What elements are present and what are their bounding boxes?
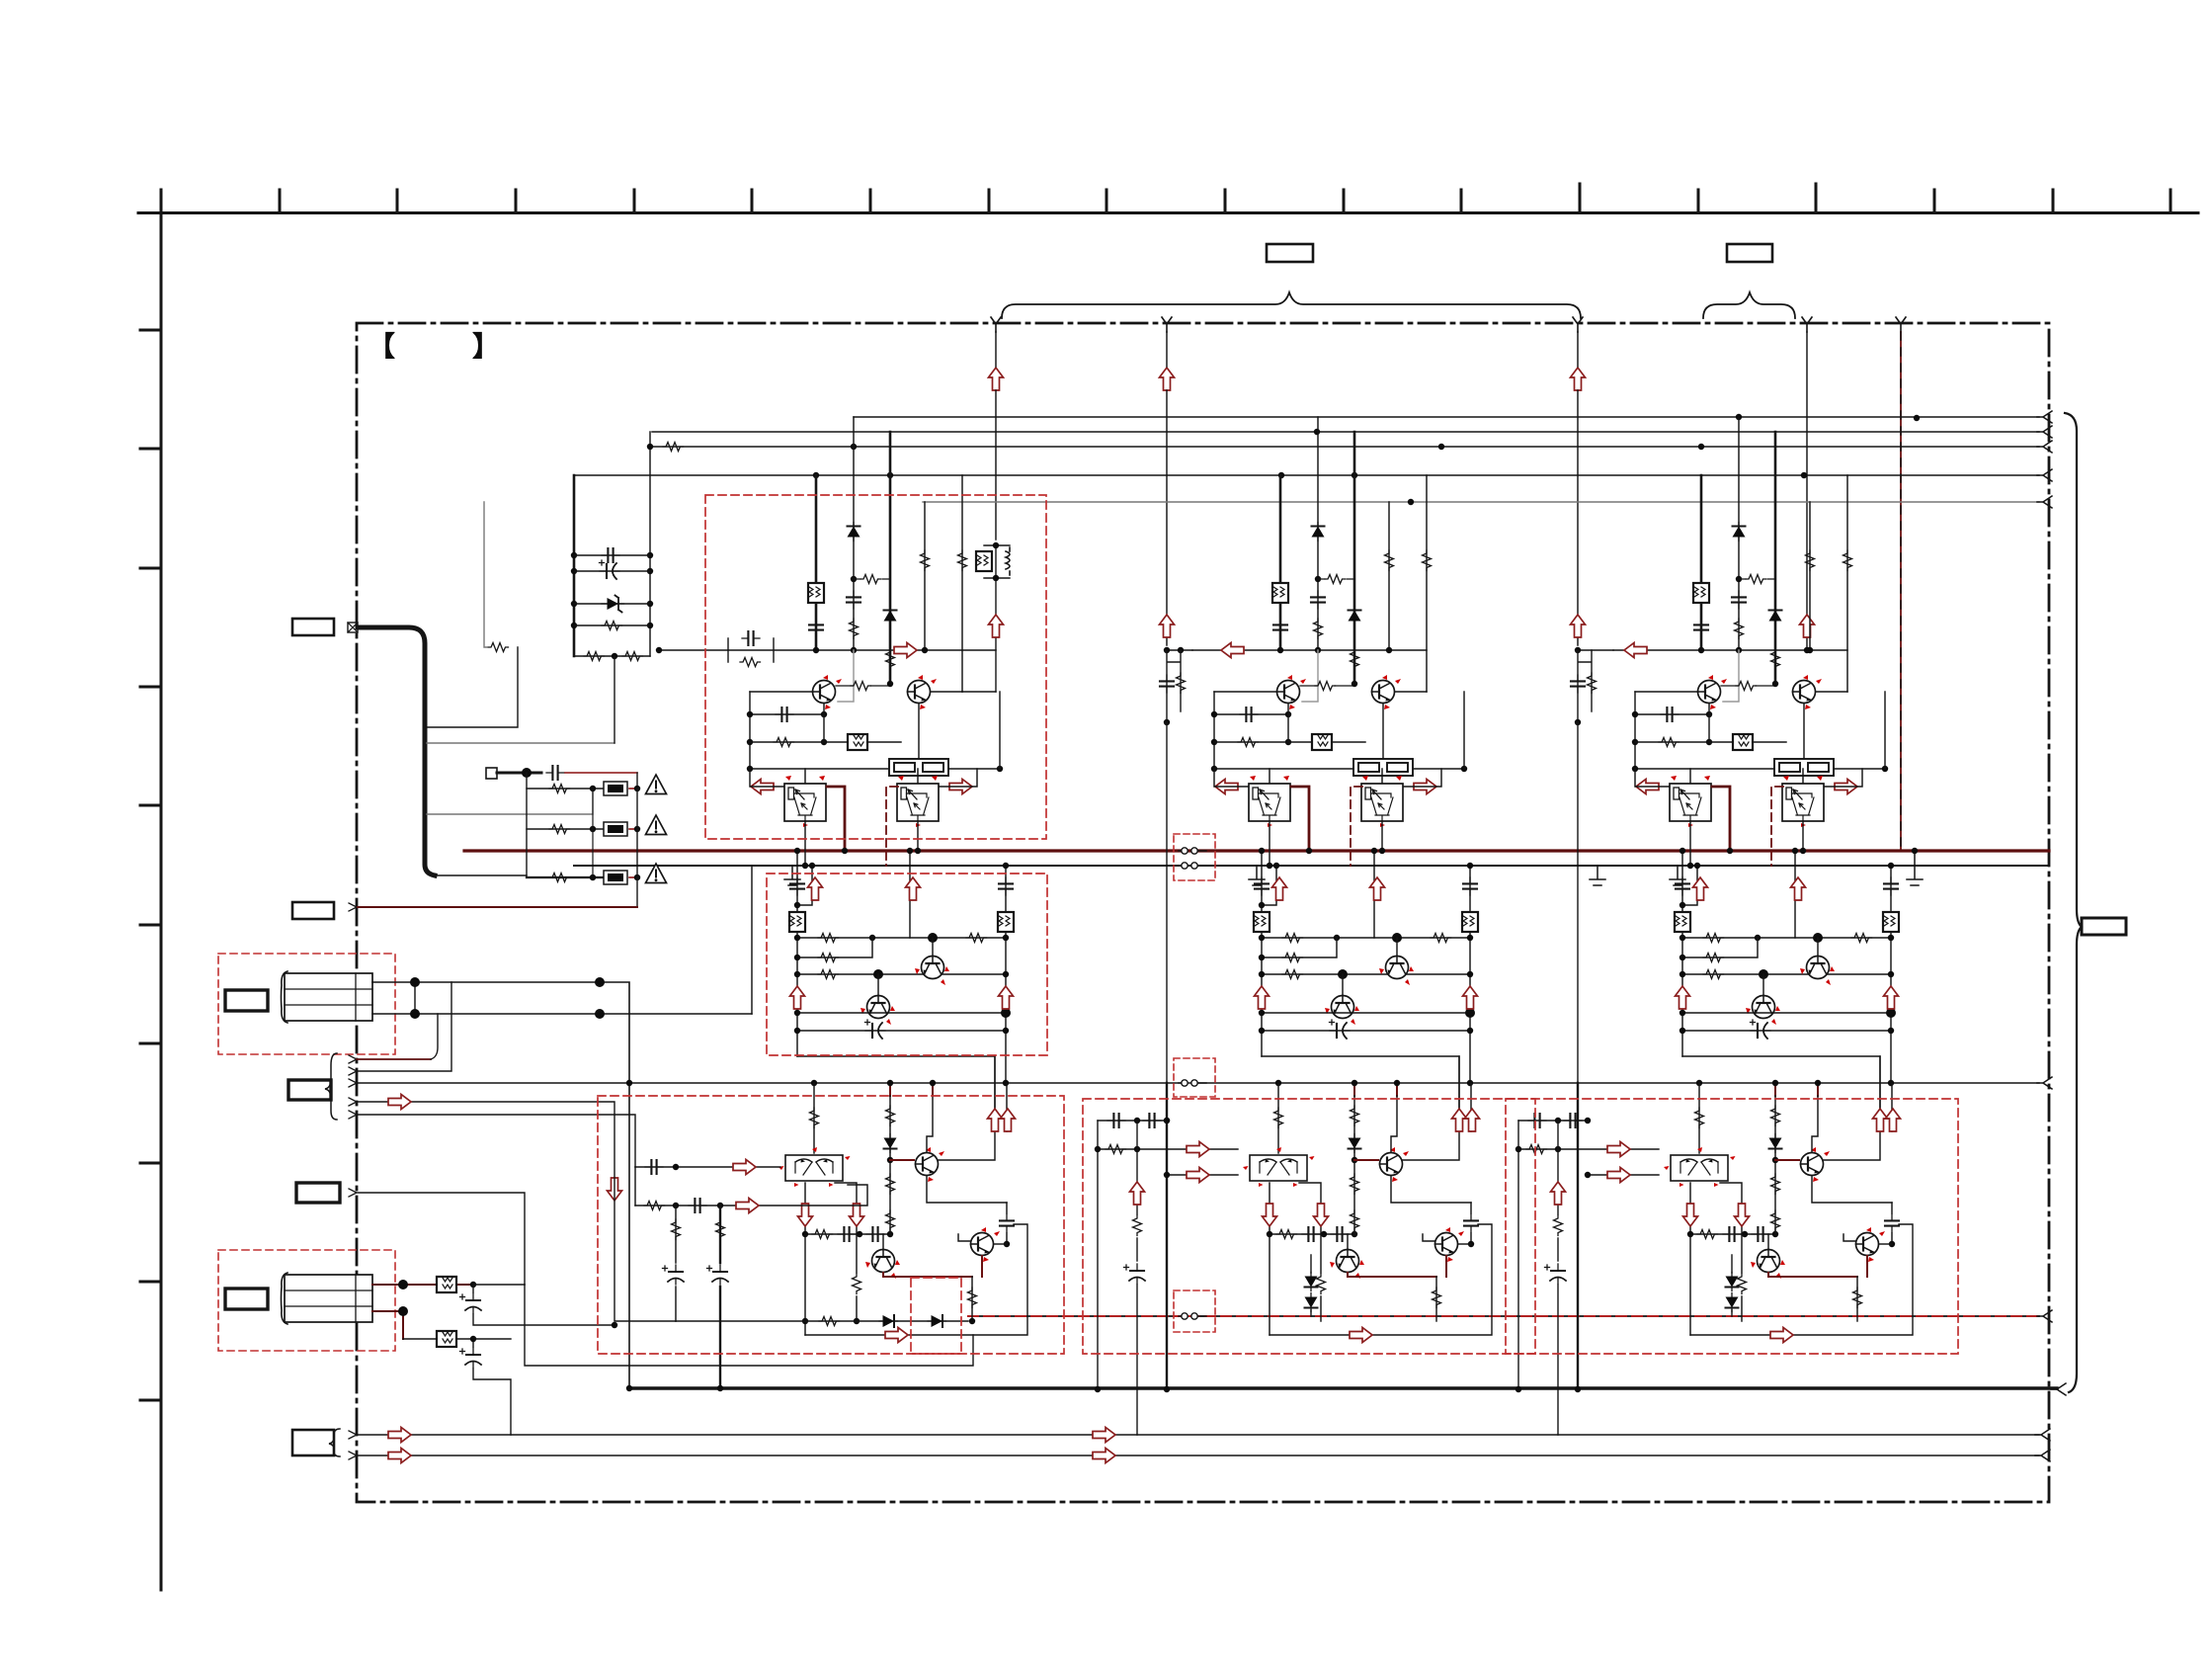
resistor upper — [602, 622, 622, 630]
wire motor2 pin2 dark red — [372, 1311, 403, 1339]
svg-text:】: 】 — [472, 331, 500, 362]
junction ch3 pair bottom — [1575, 719, 1581, 725]
wire conn line4 — [357, 1102, 676, 1321]
rail ch3 input left — [1517, 1121, 1519, 1389]
wire motor2 pin1 dark red — [372, 1284, 473, 1286]
bus line 4 — [574, 474, 2039, 476]
wire branch b2 — [427, 742, 614, 744]
wire ch3 cap row — [1518, 1120, 1588, 1122]
label box M2 — [225, 1289, 268, 1309]
wire warn right rail — [636, 789, 638, 907]
bus thick bottom — [629, 1386, 2057, 1389]
arrow up right feed — [1800, 615, 1815, 637]
junction motor2 pin1 — [398, 1280, 408, 1290]
fork ends bottom lines — [2035, 1429, 2050, 1441]
arrow up ch1 feed — [989, 368, 1004, 390]
resistor branch b1 — [488, 643, 509, 652]
wire ch3 col mid — [1557, 1121, 1559, 1435]
junction ch3 row feed — [1804, 647, 1810, 653]
resistor input2 — [644, 1202, 665, 1210]
motor M1 — [282, 971, 373, 1023]
wire row extension ch1 — [659, 649, 728, 651]
polarized capacitor ch3 col — [1545, 1264, 1567, 1284]
wire motor1 pin1 — [372, 982, 629, 1388]
wire branch b3 — [427, 789, 593, 814]
capacitor input pair ch1 — [728, 638, 774, 662]
capacitor upper — [602, 548, 619, 562]
junction input1 — [673, 1164, 679, 1170]
red dashed box motor1 — [218, 954, 395, 1054]
warning row 3 — [527, 876, 605, 878]
wire ch2 feed lower — [1166, 722, 1168, 1083]
wire conn line1 — [357, 1058, 431, 1060]
polarized capacitor col729 — [707, 1265, 729, 1285]
wire ch3 row3 — [1588, 1174, 1659, 1176]
wire motor2 row2 — [403, 1338, 511, 1340]
node Y4 — [1802, 317, 1812, 332]
wire pcap row — [574, 570, 650, 572]
warning row 2 — [527, 828, 605, 830]
bus red dashed fork end — [2037, 1310, 2052, 1322]
brace top right — [1703, 292, 1795, 318]
wire ch3 res row — [1518, 1148, 1659, 1150]
diode row d1 ch1 — [879, 1315, 898, 1327]
diode stack ch2 — [1310, 1255, 1312, 1316]
label box top center — [1267, 244, 1313, 262]
wire col729 thick — [719, 1206, 721, 1388]
bus red dashed — [968, 1315, 2039, 1317]
junction ch2 feed crossings — [1164, 1118, 1170, 1123]
capacitor ch3 in a — [1528, 1114, 1546, 1127]
wire res row — [574, 624, 650, 626]
diode row wire ch1 — [676, 1320, 968, 1322]
red dashed box motor2 — [218, 1250, 395, 1351]
red dashed box ch2 bottom — [1083, 1099, 1535, 1354]
wire conn line5 — [357, 1115, 635, 1167]
junction diode row ch1 — [802, 1318, 808, 1324]
top ruler ticks — [161, 184, 2171, 212]
zener diode upper — [602, 596, 624, 613]
resistor ch3 col — [1554, 1215, 1563, 1236]
junction motor2 mid — [470, 1282, 476, 1288]
arrow ch3 in1 — [1607, 1142, 1630, 1157]
label box L5 — [292, 1430, 334, 1456]
arrow up ch1 feed low — [989, 615, 1004, 637]
connector oo pair 1b — [1179, 863, 1206, 869]
wire ch1 feed low — [995, 545, 997, 692]
wire QR ext ch1 — [962, 691, 996, 693]
polarized capacitor motor2b — [460, 1348, 482, 1368]
arrow input1 — [733, 1160, 756, 1175]
junction ch1 feed — [993, 542, 999, 548]
wire motor2 row2 link — [473, 1339, 511, 1435]
junction ch2 row3 — [1164, 1172, 1170, 1178]
junction ch3 rail — [1516, 1386, 1521, 1392]
junction pad rail — [522, 768, 532, 778]
wire ch1 feed vertical — [995, 332, 997, 540]
main block dash-dot border — [357, 323, 2049, 1502]
node Y2 — [1162, 317, 1172, 332]
arrow up ch3 mid feed — [1571, 615, 1586, 637]
brace L5 — [329, 1429, 340, 1456]
wire thick from L1 — [358, 627, 435, 875]
wire dark red L2 — [358, 906, 637, 908]
diode row d2 ch1 — [928, 1315, 946, 1327]
wire ch2 cap row — [1098, 1120, 1167, 1122]
capacitor ch2 in b — [1143, 1114, 1161, 1127]
label box L2 — [292, 902, 334, 919]
bus fork ends — [2037, 411, 2052, 423]
arrow up ch2 col — [1130, 1182, 1145, 1205]
wire col684 — [675, 1206, 677, 1321]
resistor col684 — [672, 1219, 681, 1240]
resistor bus3 — [663, 443, 684, 452]
junction ch3 res row — [1516, 1146, 1521, 1152]
connector oo pair 2 — [1179, 1080, 1206, 1086]
wire branch b1 — [427, 647, 518, 727]
resistor bottom right — [622, 652, 643, 661]
resistor ch3 in — [1526, 1145, 1547, 1154]
wire L3 — [358, 1193, 525, 1285]
rail ch2 input left — [1097, 1121, 1099, 1389]
input wire row2 — [635, 1185, 867, 1206]
wire ch3 feed vertical — [1577, 332, 1579, 645]
wire motor2 cap link — [473, 1285, 614, 1325]
wire pad red — [565, 772, 637, 774]
pin marks L4 — [349, 1055, 357, 1119]
resistor bottom left — [584, 652, 605, 661]
wire network tap — [614, 656, 615, 743]
junction ch3 feed — [1575, 647, 1581, 653]
wire ch2 row3 — [1167, 1174, 1238, 1176]
junction motor2 pin2 — [398, 1306, 408, 1316]
top ruler line — [138, 211, 2198, 214]
wire ch2 col mid — [1136, 1121, 1138, 1435]
bus black lower — [358, 1082, 2039, 1084]
left ruler ticks — [140, 330, 161, 1400]
diode stack ch3 — [1731, 1255, 1733, 1316]
right group brace — [2065, 413, 2082, 1392]
junction input2b — [717, 1203, 723, 1208]
junction col729 — [717, 1385, 723, 1391]
polarized capacitor upper — [600, 560, 620, 579]
arrows bottom line2 — [388, 1449, 411, 1463]
capacitor input1 — [645, 1160, 663, 1174]
wire warn risers — [592, 789, 594, 877]
svg-text:【: 【 — [368, 331, 395, 362]
pin marks L5 — [349, 1431, 357, 1459]
label box L4 — [288, 1080, 331, 1100]
red connector box 2 — [1174, 1058, 1215, 1097]
arrow conn line4 — [388, 1095, 411, 1110]
capacitor input2 — [689, 1199, 706, 1212]
boxed resistor motor2b — [437, 1331, 456, 1347]
arrow down loop — [608, 1178, 622, 1201]
junction ch2 feed — [1164, 647, 1170, 653]
capacitor input pair ch2 — [1167, 650, 1181, 722]
arrow right ch1 row — [894, 643, 917, 658]
wire ch1 riser x761 — [751, 866, 753, 1014]
label box right — [2082, 918, 2126, 935]
wire cap row — [574, 554, 650, 556]
bus line 3 — [652, 446, 2039, 448]
wire row link ch2 — [1167, 649, 1192, 651]
junction ch3 cap row — [1555, 1118, 1561, 1123]
wire right feed vertical — [1806, 332, 1808, 650]
boxed resistor motor2a — [437, 1277, 456, 1292]
connector oo pair 1a — [1179, 848, 1206, 854]
capacitor pad row — [546, 766, 564, 780]
wire bottom line1 — [357, 1434, 2039, 1436]
channel 3 block — [1613, 417, 1913, 1343]
red connector box 3 — [1174, 1290, 1215, 1332]
pin mark L3 — [349, 1189, 357, 1197]
junction ch1 row — [656, 647, 662, 653]
junction motor1 — [410, 977, 420, 987]
wire row ext right ch1 — [962, 649, 996, 651]
G_CH3 — [598, 495, 1958, 1354]
red dashed box ch1 bottom — [598, 1096, 1064, 1354]
arrow ch3 in2 — [1607, 1168, 1630, 1183]
upper network left rail — [573, 475, 576, 656]
node Y5 — [1896, 317, 1906, 332]
wire pad red rail link — [636, 773, 638, 789]
label box L3 — [296, 1183, 340, 1203]
arrow up ch2 feed — [1160, 368, 1175, 390]
node Y1 — [991, 317, 1001, 332]
brace L4 — [325, 1053, 337, 1120]
junction bus crossings — [851, 444, 857, 450]
upper network right rail — [649, 432, 651, 656]
junction ch3 row3 — [1585, 1172, 1591, 1178]
wire branch b1 tail — [484, 502, 487, 647]
junction out — [626, 1080, 632, 1086]
junction ch2 rail — [1095, 1386, 1101, 1392]
arrow left ch3 row — [1624, 643, 1647, 658]
motor M2 — [282, 1273, 373, 1324]
wire pad to rail — [497, 772, 541, 775]
wire row link ch3 — [1578, 649, 1613, 651]
red dashed box ch1 sub — [911, 1278, 961, 1354]
wire conn line2 — [357, 982, 451, 1071]
label box top right — [1727, 244, 1772, 262]
left ruler line — [160, 190, 163, 1590]
wire ch3 feed lower — [1577, 722, 1579, 1083]
junction ch2 res row — [1095, 1146, 1101, 1152]
wire bottom row — [574, 655, 650, 657]
wire loop low — [525, 1285, 973, 1366]
node Y3 — [1573, 317, 1583, 332]
junction input2 — [673, 1203, 679, 1208]
capacitor ch3 in b — [1564, 1114, 1582, 1127]
resistor diode row ch1 — [819, 1317, 840, 1326]
red dashed box ch1 mid — [767, 874, 1047, 1055]
resistor ch2 col — [1133, 1215, 1142, 1236]
arrow left ch2 row — [1221, 643, 1244, 658]
bus line 1 — [854, 416, 2039, 418]
capacitor input pair ch3 — [1578, 650, 1592, 722]
resistor ch2 in — [1106, 1145, 1126, 1154]
ground stub right — [1907, 851, 1923, 885]
polarized capacitor col684 — [663, 1265, 685, 1285]
junction bottom row — [612, 653, 617, 659]
junction upper network — [571, 552, 577, 558]
junction ch3 crossings — [1575, 1386, 1581, 1392]
wire motor1 link — [414, 982, 416, 1014]
wire branch b4 — [435, 874, 527, 876]
channel 2 block — [1192, 417, 1492, 1343]
arrow ch2 in1 — [1187, 1142, 1209, 1157]
red dashed box ch1 top — [705, 495, 1046, 839]
wire ch2 feed vertical — [1166, 332, 1168, 645]
bus line 2 — [652, 431, 2039, 433]
rail pad left — [526, 773, 528, 877]
input wire row1 — [635, 1166, 780, 1168]
junction motor2 — [470, 1336, 476, 1342]
terminal square L1 — [348, 623, 358, 632]
pin mark L2 — [349, 903, 357, 911]
wire bottom line2 — [357, 1455, 2039, 1456]
bus lower fork end — [2037, 1077, 2052, 1089]
boxed resistor with coil ch1 feed — [984, 545, 1010, 578]
rail input left — [634, 1167, 636, 1206]
label box M1 — [225, 990, 268, 1011]
polarized capacitor motor2a — [460, 1293, 482, 1313]
bus black mid — [574, 865, 2049, 867]
red dashed box ch3 bottom — [1506, 1099, 1958, 1354]
red connector box 1 — [1174, 834, 1215, 880]
ground stub mid right — [1590, 866, 1605, 885]
bus dark red supply — [464, 849, 2049, 852]
channel 1 block — [728, 417, 1027, 1343]
wire ch2 res row — [1098, 1148, 1238, 1150]
arrow up ch3 feed — [1571, 368, 1586, 390]
arrow up ch2 mid feed — [1160, 615, 1175, 637]
junction ch2 pair bottom — [1164, 719, 1170, 725]
arrow ch2 in2 — [1187, 1168, 1209, 1183]
arrow up ch3 col — [1551, 1182, 1566, 1205]
polarized capacitor ch2 col — [1124, 1264, 1146, 1284]
resistor col729 — [716, 1219, 725, 1240]
label box L1 — [292, 619, 334, 635]
arrow input2 — [736, 1199, 759, 1213]
brace top center — [1002, 292, 1581, 318]
wire motor1 pin2 — [372, 1013, 752, 1015]
warning row 1 — [527, 788, 605, 790]
connector oo pair 3 — [1179, 1313, 1206, 1319]
arrows bottom line1 — [388, 1428, 411, 1443]
wire zener row — [574, 603, 650, 605]
bus thick fork end — [2051, 1383, 2066, 1395]
capacitor ch2 in a — [1107, 1114, 1125, 1127]
junction ch2 cap row — [1134, 1118, 1140, 1123]
wire right red feed vertical — [1900, 332, 1902, 851]
pad square — [486, 768, 497, 779]
bus line 5 — [923, 501, 2039, 503]
